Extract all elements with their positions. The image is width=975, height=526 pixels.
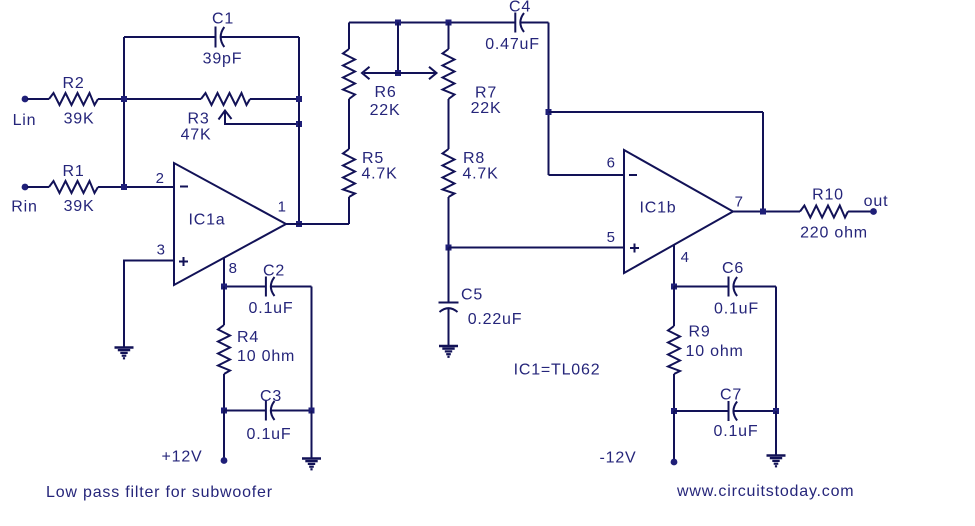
wire R4 top lead <box>223 287 225 326</box>
svg-text:7: 7 <box>735 194 744 211</box>
svg-text:R9: R9 <box>689 324 711 341</box>
resistor R2 <box>49 93 98 105</box>
resistor R4 <box>218 325 230 374</box>
wire R10 to out <box>848 211 871 213</box>
wire R7 to R8 <box>448 99 450 149</box>
wire R8 bottom lead <box>448 197 450 248</box>
resistor R6 <box>343 49 355 99</box>
svg-text:5: 5 <box>607 229 616 246</box>
svg-text:Low pass filter for subwoofer: Low pass filter for subwoofer <box>46 484 273 501</box>
svg-text:39K: 39K <box>64 198 95 215</box>
wire right feedback rail vertical <box>298 37 300 224</box>
wiper arrowhead R3 <box>219 111 232 120</box>
junction R4 / C3 <box>221 408 227 414</box>
wire pin5 from R8 junction <box>449 247 625 249</box>
resistor R7 <box>443 49 455 99</box>
wire top bus to C4 <box>349 22 515 24</box>
wire IC1b pin4 stub <box>673 245 675 287</box>
wire feedback top horizontal <box>549 111 764 113</box>
svg-text:4: 4 <box>681 249 690 266</box>
arrowhead left (to R6) <box>362 67 370 79</box>
wire +12V lead <box>223 411 225 458</box>
ground (C5) <box>439 346 458 357</box>
svg-text:R1: R1 <box>62 163 84 180</box>
svg-text:R7: R7 <box>475 85 497 102</box>
svg-text:IC1b: IC1b <box>640 200 677 217</box>
svg-text:3: 3 <box>157 242 166 259</box>
resistor R1 <box>49 181 98 193</box>
svg-text:out: out <box>864 193 889 210</box>
svg-text:Rin: Rin <box>11 199 37 216</box>
wire C6 right lead <box>734 286 776 288</box>
svg-text:47K: 47K <box>181 127 212 144</box>
svg-text:220 ohm: 220 ohm <box>800 225 868 242</box>
wire C2 left lead <box>224 286 266 288</box>
svg-text:Lin: Lin <box>13 112 37 129</box>
svg-text:10 0hm: 10 0hm <box>237 348 295 365</box>
svg-text:C5: C5 <box>461 287 483 304</box>
resistor R9 <box>668 326 680 374</box>
wire R9 bottom lead <box>673 374 675 411</box>
svg-text:0.1uF: 0.1uF <box>714 301 759 318</box>
svg-text:C1: C1 <box>212 11 234 28</box>
wire C5 top lead <box>448 248 450 303</box>
wire R5 bottom lead <box>348 197 350 224</box>
resistor R5 <box>343 149 355 197</box>
svg-text:C6: C6 <box>722 260 744 277</box>
capacitor C1 <box>216 27 225 48</box>
wire C7 rail to ground <box>775 411 777 455</box>
junction C7 / ground rail <box>773 408 779 414</box>
wire R1 to IC1a pin2 <box>98 186 174 188</box>
ground (C3) <box>302 459 321 470</box>
wire R2 to R3 (through node A) <box>98 98 201 100</box>
wire C3 left lead <box>224 410 266 412</box>
wire feedback down to output <box>762 112 764 212</box>
junction R9 / C7 <box>671 408 677 414</box>
node Rin input terminal <box>22 184 29 191</box>
svg-text:IC1a: IC1a <box>189 212 226 229</box>
wire R4 bottom lead <box>223 374 225 411</box>
resistor R8 <box>443 149 455 197</box>
wire pot wiper arrow bar <box>364 72 435 74</box>
node Lin input terminal <box>22 96 29 103</box>
ground (C7) <box>767 456 786 467</box>
wire C2-C3 right rail <box>311 287 313 411</box>
capacitor C3 <box>266 401 275 421</box>
junction R3 right / rail <box>296 96 302 102</box>
svg-text:C4: C4 <box>509 0 531 16</box>
minus sign IC1b <box>629 174 637 176</box>
resistor R10 <box>800 206 848 218</box>
junction wiper stub / top bus <box>395 20 401 26</box>
wire -12V lead <box>673 411 675 459</box>
node +12V terminal <box>221 457 228 464</box>
junction wiper / arrow bar <box>395 70 401 76</box>
op-amp U1 IC1b <box>624 150 733 273</box>
svg-text:4.7K: 4.7K <box>361 166 397 183</box>
wire IC1a pin3 to ground <box>124 261 174 347</box>
junction pin4 / C6 <box>671 284 677 290</box>
svg-text:4.7K: 4.7K <box>462 166 498 183</box>
capacitor C2 <box>266 277 275 297</box>
svg-text:0.47uF: 0.47uF <box>485 36 540 53</box>
wire IC1a pin8 stub <box>223 258 225 287</box>
wire C7 right lead <box>734 410 776 412</box>
wire C6-C7 right rail <box>775 287 777 412</box>
svg-text:8: 8 <box>229 260 238 277</box>
minus sign IC1a <box>180 186 188 188</box>
junction R1 / rail <box>121 184 127 190</box>
wire pot wiper stub <box>397 23 399 74</box>
svg-text:39pF: 39pF <box>203 51 243 68</box>
wire C1 top right <box>221 36 299 38</box>
svg-text:www.circuitstoday.com: www.circuitstoday.com <box>676 483 854 500</box>
svg-text:C2: C2 <box>263 263 285 280</box>
capacitor C7 <box>729 401 738 421</box>
wire right pot chain top lead <box>448 23 450 50</box>
capacitor C5 <box>439 303 459 313</box>
svg-text:R8: R8 <box>463 150 485 167</box>
junction feedback / C4 rail <box>546 109 552 115</box>
svg-text:0.22uF: 0.22uF <box>468 311 523 328</box>
wire left feedback rail vertical <box>123 37 125 187</box>
svg-text:R2: R2 <box>62 75 84 92</box>
svg-text:IC1=TL062: IC1=TL062 <box>514 362 601 379</box>
wire R9 top lead <box>673 287 675 327</box>
node out terminal <box>870 208 877 215</box>
capacitor C6 <box>729 277 738 297</box>
svg-text:2: 2 <box>156 170 165 187</box>
node -12V terminal <box>671 459 678 466</box>
resistor R3 (pot) <box>201 93 250 105</box>
wire left pot chain top lead <box>348 23 350 50</box>
wire C5 bottom lead <box>448 308 450 346</box>
svg-text:6: 6 <box>607 155 616 172</box>
wire C4 right to rail <box>520 22 548 24</box>
junction C3 / ground rail <box>309 408 315 414</box>
arrowhead right (to R7) <box>429 67 437 79</box>
ground (IC1a pin3) <box>115 348 134 359</box>
svg-text:39K: 39K <box>64 111 95 128</box>
plus sign IC1a <box>179 257 188 266</box>
plus sign IC1b <box>630 244 639 253</box>
svg-text:C7: C7 <box>720 387 742 404</box>
wire Lin lead <box>27 98 49 100</box>
capacitor C4 <box>515 13 524 33</box>
svg-text:R6: R6 <box>374 84 396 101</box>
svg-text:R10: R10 <box>812 187 844 204</box>
wire IC1b output <box>733 211 800 213</box>
junction output / rail <box>296 221 302 227</box>
wire C7 left lead <box>674 410 729 412</box>
wire R3 wiper arm <box>225 112 299 124</box>
wire C3 right lead <box>271 410 312 412</box>
wire IC1a output to R5 rail <box>286 223 349 225</box>
junction pin8 / C2 <box>221 284 227 290</box>
wire IC1b pin6 <box>549 174 625 176</box>
junction R8 / pin5 wire <box>446 245 452 251</box>
svg-text:0.1uF: 0.1uF <box>714 423 759 440</box>
svg-text:+12V: +12V <box>161 449 202 466</box>
junction output / feedback rail <box>760 209 766 215</box>
svg-text:R4: R4 <box>237 329 259 346</box>
svg-text:1: 1 <box>278 199 287 216</box>
wire C4 rail down to pin6 <box>548 23 550 176</box>
junction R7 chain / top bus <box>446 20 452 26</box>
svg-text:0.1uF: 0.1uF <box>247 426 292 443</box>
svg-text:R3: R3 <box>187 111 209 128</box>
svg-text:-12V: -12V <box>600 450 637 467</box>
op-amp U1 IC1a <box>174 163 286 285</box>
svg-text:C3: C3 <box>260 388 282 405</box>
wire C2 right lead <box>271 286 312 288</box>
svg-text:R5: R5 <box>362 150 384 167</box>
wire R3 right lead <box>250 98 299 100</box>
junction R3 wiper at right rail <box>296 121 302 127</box>
wire C3 rail to ground <box>311 411 313 458</box>
wire Rin lead <box>27 186 49 188</box>
svg-text:22K: 22K <box>471 100 502 117</box>
svg-text:0.1uF: 0.1uF <box>249 300 294 317</box>
junction R2 / rail <box>121 96 127 102</box>
wire C6 left lead <box>674 286 729 288</box>
wire R6 to R5 <box>348 99 350 149</box>
svg-text:22K: 22K <box>370 102 401 119</box>
wire C1 top left <box>124 36 216 38</box>
svg-text:10 ohm: 10 ohm <box>686 343 744 360</box>
